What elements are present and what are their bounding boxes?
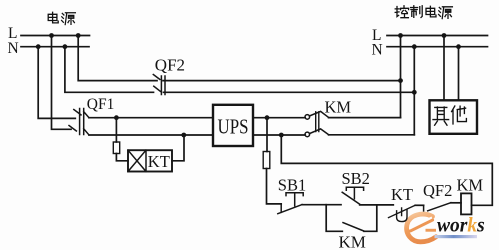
svg-text:KT: KT [148, 152, 170, 171]
node: L bus dot 1 [49, 33, 54, 38]
wire: L drop to 其他 box [443, 36, 445, 101]
fuse FU1 lead to KT [116, 154, 128, 161]
relay KT box [128, 150, 172, 171]
svg-text:SB2: SB2 [342, 169, 370, 188]
wire: UPS top output [253, 117, 305, 119]
wire: SB2 to KT contact [360, 204, 394, 206]
label 控制电源 [395, 6, 452, 19]
svg-text:N: N [372, 42, 383, 59]
node: dot UPS top output (control fuse tap) [265, 115, 270, 120]
svg-text:KT: KT [391, 185, 413, 204]
wire: QF2 aux to KM coil [451, 202, 461, 204]
node: dot on bottom rail (KT tap) [181, 133, 186, 138]
wire: QF1 top output rail to UPS [89, 117, 213, 119]
wire: SB1 to SB2 [302, 204, 341, 206]
UPS box U1 [213, 105, 253, 146]
wire: QF2 bottom output to control N column [164, 91, 415, 93]
svg-text:KM: KM [339, 232, 366, 250]
contactor KM main contact top [305, 111, 329, 119]
wire: L drop to QF2 top line [78, 36, 157, 81]
latch branch right rise [364, 205, 377, 231]
node: control N dot at column [412, 44, 417, 49]
node: control L dot at column [398, 33, 403, 38]
label 电源 [48, 12, 58, 23]
char 电 [426, 6, 436, 17]
wire: control L bus [387, 35, 488, 37]
wire: control L column [400, 36, 402, 118]
contactor KM linkage bars [316, 112, 319, 132]
fuse FU2 lead from top rail [266, 118, 268, 152]
e-works logo [407, 214, 485, 242]
wire: control N bus [387, 46, 488, 48]
node: L bus dot 2 [76, 33, 81, 38]
contact KT delayed contact [389, 205, 416, 221]
svg-text:KM: KM [325, 98, 352, 117]
breaker QF2 symbol [153, 75, 165, 95]
char 他 [452, 106, 467, 124]
char 其 [433, 107, 449, 125]
fuse FU1 body [113, 142, 119, 154]
wire: N drop to QF2 bottom line [65, 47, 154, 93]
node: N bus dot 2 [63, 44, 68, 49]
node: control L dot at 其他 [442, 33, 447, 38]
label 电源 char2 源 [62, 13, 76, 25]
node: dot QF2 top joins L column [398, 78, 403, 83]
node: dot UPS bottom output (rail tap) [279, 133, 284, 138]
coil KM body [461, 193, 472, 214]
wire: KM top output to control L column [329, 117, 401, 119]
svg-text:works: works [437, 214, 485, 237]
contactor KM main contact bottom [305, 129, 329, 137]
wire: N drop to 其他 box [458, 47, 460, 101]
button SB2 plunger [346, 187, 363, 199]
box 其他 [430, 100, 478, 134]
label 其他 [433, 106, 466, 125]
contact KM aux (latch) [343, 223, 364, 232]
wire: QF1 bottom output rail to UPS [89, 134, 213, 136]
wire: N drop to QF1 top input [38, 47, 75, 119]
button SB1 plunger [286, 193, 303, 206]
fuse FU2 lead down [267, 169, 282, 204]
button SB2 NO contact [342, 192, 360, 204]
wire: KT to bottom rail [172, 135, 184, 161]
relay KT X symbol [128, 150, 146, 171]
wire: QF2 top output to control L column [163, 80, 401, 82]
svg-text:SB1: SB1 [278, 176, 306, 195]
wire: left N bus [21, 46, 89, 48]
breaker QF1 symbol [69, 109, 89, 136]
wire: left L bus [21, 35, 90, 37]
node: control N dot at 其他 [456, 44, 461, 49]
contact QF2 aux [424, 203, 451, 211]
wire: KM coil return loop to bottom rail tap [281, 135, 492, 205]
svg-text:QF2: QF2 [423, 181, 452, 200]
wire: L drop to QF1 bottom input [52, 36, 72, 130]
svg-text:QF1: QF1 [87, 96, 115, 113]
latch branch left drop [326, 205, 342, 232]
svg-text:UPS: UPS [218, 114, 249, 138]
wire: control N column [413, 47, 415, 135]
svg-text:N: N [8, 40, 19, 57]
node: N bus dot 1 [36, 44, 41, 49]
node: dot QF2 bottom joins N column [412, 90, 417, 95]
char 源 [439, 7, 453, 19]
button SB1 NC contact [278, 204, 302, 214]
fuse FU2 body [263, 152, 270, 169]
wire: KT to QF2 aux [415, 204, 423, 206]
svg-text:QF2: QF2 [155, 56, 185, 75]
fuse FU1 lead [115, 118, 117, 142]
node: dot on top rail (fuse tap) [114, 115, 119, 120]
wire: UPS bottom output [253, 134, 305, 136]
wire: KM bottom output to control N column [329, 134, 415, 136]
char 控 [395, 6, 408, 18]
svg-text:KM: KM [457, 176, 484, 195]
char 制 [411, 6, 423, 18]
